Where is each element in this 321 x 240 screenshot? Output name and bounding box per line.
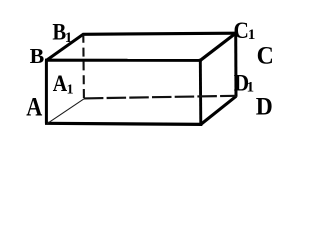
hidden edge A1D1 (back-bottom horizontal, dashed) (84, 96, 236, 99)
edge C1D1 (back-right vertical) (234, 32, 237, 97)
svg-text:1: 1 (65, 29, 73, 46)
hidden edge B1A1 (back-left vertical, dashed) (82, 35, 85, 99)
edge DD1 (lower-right depth diagonal) (201, 96, 237, 124)
svg-text:1: 1 (67, 81, 74, 97)
svg-text:B: B (30, 44, 45, 68)
edge AA1 (lower-left depth diagonal, thin) (47, 99, 84, 124)
svg-text:1: 1 (247, 78, 255, 95)
svg-text:A: A (26, 93, 42, 122)
svg-text:D: D (256, 93, 273, 120)
edge AD (front-bottom horizontal) (45, 123, 202, 124)
edge BB1 (upper-left depth diagonal) (46, 34, 84, 61)
edge BC (front-top horizontal) (45, 59, 202, 62)
svg-text:C: C (257, 43, 274, 70)
edge B1C1 (back-top horizontal) (83, 33, 236, 34)
svg-text:1: 1 (248, 26, 256, 43)
edge CC1 (upper-right depth diagonal) (200, 33, 236, 61)
edge AB (front-left vertical) (45, 60, 48, 123)
svg-text:A: A (53, 71, 68, 96)
edge CD (front-right vertical) (199, 59, 202, 126)
svg-text:C: C (234, 18, 249, 43)
